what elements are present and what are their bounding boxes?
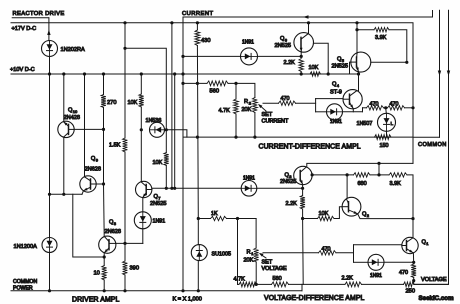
wire set-current bracket bbox=[315, 99, 317, 112]
wiper arrow R1 bbox=[261, 254, 267, 258]
wire 680 3.9K line bbox=[312, 174, 353, 176]
svg-text:10: 10 bbox=[73, 109, 78, 114]
wire Q7 collector line to Q3 base bbox=[152, 187, 241, 189]
svg-text:2N525: 2N525 bbox=[150, 201, 166, 207]
svg-text:2.2K: 2.2K bbox=[284, 60, 296, 66]
wire 2.2K to emitter line bbox=[302, 209, 304, 219]
transistor Q1 bbox=[402, 237, 418, 253]
wire Q10 base line bbox=[74, 128, 103, 130]
svg-text:CURRENT: CURRENT bbox=[182, 11, 214, 17]
resistor 680 bbox=[354, 173, 371, 177]
wire Q3 emitter node to 10K bbox=[303, 218, 318, 220]
wire 10K to Q2 base bbox=[334, 207, 342, 219]
svg-text:560: 560 bbox=[273, 276, 282, 282]
svg-text:470: 470 bbox=[399, 270, 408, 276]
svg-text:150: 150 bbox=[380, 143, 389, 149]
svg-text:+17V D-C: +17V D-C bbox=[12, 26, 37, 32]
svg-text:470: 470 bbox=[322, 247, 331, 253]
svg-text:2N525: 2N525 bbox=[280, 179, 296, 185]
diode 1N507 bbox=[378, 113, 396, 131]
svg-text:1N91: 1N91 bbox=[153, 219, 166, 225]
wire up to driver diode bbox=[142, 229, 144, 244]
wire vertical from +17V rail bbox=[171, 23, 173, 189]
svg-text:REACTOR DRIVE: REACTOR DRIVE bbox=[13, 11, 65, 17]
wire 430 branch from +17V rail bbox=[196, 23, 198, 30]
wire R2 bottom to common line bbox=[254, 113, 256, 138]
wire rail step up bbox=[301, 284, 303, 290]
transistor Q9 bbox=[80, 176, 96, 192]
svg-text:2N428: 2N428 bbox=[64, 115, 80, 121]
svg-text:SU1005: SU1005 bbox=[212, 251, 231, 257]
svg-text:250: 250 bbox=[406, 288, 416, 294]
wire R1 bottom bbox=[255, 262, 257, 284]
wire 1N91 to Q4 emitter bbox=[343, 111, 363, 113]
svg-text:430: 430 bbox=[201, 38, 211, 44]
wire Q2 collector up to 680 node bbox=[346, 175, 348, 198]
wire Q8 base bracket bbox=[73, 194, 104, 257]
svg-text:1N91: 1N91 bbox=[330, 119, 342, 125]
svg-text:1N536: 1N536 bbox=[146, 118, 162, 124]
node Q5 emitter junction bbox=[357, 72, 360, 75]
svg-text:VOLTAGE: VOLTAGE bbox=[262, 266, 287, 272]
transistor Q2 bbox=[342, 197, 361, 216]
wire 1N536 right node bbox=[165, 128, 168, 131]
wire 10 ohm to bottom rail bbox=[103, 280, 105, 291]
diode 1N202RA bbox=[42, 41, 58, 57]
transistor Q4 bbox=[343, 90, 362, 109]
wire 560 line from sense vertical bbox=[183, 82, 207, 84]
resistor 2.2K lower bbox=[345, 282, 362, 287]
resistor 10 bbox=[102, 266, 107, 281]
wire 1N536 node down through 10K lower bbox=[165, 130, 167, 153]
arrow up on 1N202RA lead bbox=[47, 30, 50, 36]
wire Q5 emitter right bbox=[371, 61, 407, 63]
wire 1N536 left branch down to Q7 bbox=[140, 130, 142, 182]
svg-text:3.9K: 3.9K bbox=[375, 35, 387, 41]
wire 1N91 to Q3 node bbox=[257, 187, 303, 189]
resistor 390 bbox=[123, 261, 128, 275]
transistor Q7 bbox=[136, 181, 152, 197]
wire reactor drive stub bbox=[12, 17, 49, 19]
wire node up to Q6 bbox=[300, 52, 302, 57]
wire common jog to bus bbox=[413, 136, 440, 138]
svg-text:COMMON: COMMON bbox=[13, 279, 37, 285]
wire R2 wiper to 470 bbox=[263, 102, 279, 104]
wire SU1005 to bottom rail bbox=[197, 261, 199, 291]
resistor 4.7K upper branch bbox=[235, 83, 237, 99]
resistor 2.2K mid bbox=[302, 188, 304, 195]
wire 560 to R2 bbox=[228, 83, 255, 97]
diode 1N91 bottom bbox=[368, 254, 384, 270]
wire 10K upper-left branch from +10V rail bbox=[140, 74, 142, 94]
wire 680/3.9K line riser bbox=[378, 163, 380, 175]
resistor 470 second bbox=[388, 106, 405, 110]
wire 1N507 riser bbox=[385, 108, 388, 114]
wire reactor output left bbox=[439, 10, 441, 137]
resistor 10K upper-left bbox=[139, 94, 144, 107]
svg-text:POWER: POWER bbox=[13, 286, 33, 292]
resistor 10K top bbox=[310, 72, 321, 76]
wire Q2 emitter line bbox=[358, 214, 413, 219]
wire node up to Q3 bbox=[302, 185, 304, 189]
resistor 430 bbox=[195, 30, 200, 46]
svg-text:680: 680 bbox=[358, 181, 367, 187]
arrow on right output wire bbox=[447, 71, 450, 77]
wire Q3 emitter branch down bbox=[302, 219, 305, 285]
wire 10K to 1N536 node bbox=[140, 107, 142, 130]
svg-text:3.9K: 3.9K bbox=[390, 181, 402, 187]
svg-text:1N91: 1N91 bbox=[370, 273, 382, 279]
svg-text:10K: 10K bbox=[128, 100, 138, 106]
svg-text:CURRENT: CURRENT bbox=[262, 119, 290, 125]
wire Q5 emitter to Q4 collector bbox=[358, 72, 360, 91]
wire bottom mid line bbox=[238, 283, 240, 285]
diode 1N536 bbox=[150, 122, 165, 137]
wire 3.9K top line bbox=[357, 29, 374, 31]
wire 270 line: +10V rail down bbox=[103, 74, 105, 95]
diode SU1005 bbox=[191, 245, 207, 261]
wire Q9 collector to +10V rail bbox=[84, 74, 86, 177]
svg-text:ST-9: ST-9 bbox=[330, 90, 342, 96]
svg-text:470: 470 bbox=[281, 96, 290, 102]
wire 10K to Q7 collector line bbox=[165, 166, 167, 189]
svg-text:470: 470 bbox=[390, 101, 399, 107]
resistor 3.9K top bbox=[374, 28, 389, 32]
wire R1 branch verticals bbox=[237, 219, 239, 285]
transistor Q8 bbox=[99, 236, 116, 253]
diode 1N1200A bbox=[42, 238, 57, 253]
svg-text:1.5K: 1.5K bbox=[109, 143, 121, 149]
transistor Q3 bbox=[294, 166, 312, 184]
resistor 10K lower bbox=[318, 216, 335, 220]
wire Q3 collector to bus bbox=[307, 163, 413, 166]
wire Q6 collector to +17V rail bbox=[308, 23, 310, 34]
svg-text:10K: 10K bbox=[319, 211, 329, 217]
resistor 10K mid-left bbox=[164, 153, 169, 166]
svg-text:560: 560 bbox=[210, 89, 220, 95]
svg-text:K = X 1,000: K = X 1,000 bbox=[173, 297, 202, 303]
svg-text:1N202RA: 1N202RA bbox=[61, 47, 86, 53]
wire vertical from +10V line bbox=[174, 74, 176, 188]
wire jog from 1.5K node to 10K branch bbox=[125, 48, 166, 130]
wire 1N1200A to bottom rail bbox=[49, 253, 51, 291]
svg-text:COMMON: COMMON bbox=[418, 142, 447, 148]
transistor Q6 bbox=[294, 33, 314, 53]
wire Q10 collector to +10V rail bbox=[63, 74, 65, 122]
svg-text:1N1200A: 1N1200A bbox=[14, 244, 38, 250]
wire 1K line bbox=[198, 218, 210, 220]
wire current-sense vertical bbox=[182, 17, 184, 291]
resistor 250 bbox=[404, 282, 415, 287]
resistor 1K bbox=[211, 216, 227, 220]
wire 1N507 down to 150 line bbox=[386, 131, 388, 137]
wire Q8 collector right bbox=[116, 242, 143, 244]
wire +10V rail long line bbox=[11, 73, 359, 75]
svg-text:20K: 20K bbox=[244, 258, 254, 264]
wire 1.5K down to Q8 collector node bbox=[124, 152, 126, 261]
svg-text:10: 10 bbox=[94, 271, 100, 277]
wire 1.5K branch from +17V rail bbox=[124, 23, 126, 138]
potentiometer R1 20K bbox=[254, 248, 259, 262]
svg-text:DRIVER AMPL: DRIVER AMPL bbox=[72, 297, 120, 304]
wiper arrow R2 bbox=[260, 105, 267, 111]
svg-text:2N525: 2N525 bbox=[332, 64, 348, 70]
wire Q5 base riser bbox=[350, 62, 351, 74]
svg-text:4.7K: 4.7K bbox=[219, 108, 231, 114]
wire 1N536 jog down to common line bbox=[166, 130, 187, 137]
wire 470 to Q1 bracket bbox=[336, 252, 354, 254]
resistor 560 upper bbox=[207, 81, 228, 86]
svg-text:390: 390 bbox=[130, 266, 140, 272]
svg-text:2.2K: 2.2K bbox=[286, 201, 298, 207]
wire Q9 base line to node bbox=[96, 183, 103, 185]
svg-text:VOLTAGE-DIFFERENCE AMPL: VOLTAGE-DIFFERENCE AMPL bbox=[264, 295, 365, 302]
diode 1N91 driver bbox=[134, 212, 151, 229]
svg-text:CURRENT-DIFFERENCE AMPL: CURRENT-DIFFERENCE AMPL bbox=[259, 144, 361, 151]
svg-text:10K: 10K bbox=[153, 160, 163, 166]
wire 470 to voltage node bbox=[413, 278, 415, 285]
resistor 470 set-voltage bbox=[319, 251, 337, 255]
wire 270 to Q10 node and down to Q8 bbox=[103, 108, 105, 185]
wire reactor output right bbox=[414, 10, 449, 284]
svg-text:+10V D-C: +10V D-C bbox=[10, 67, 35, 73]
svg-text:270: 270 bbox=[107, 100, 117, 106]
svg-text:4.7K: 4.7K bbox=[234, 277, 246, 283]
svg-text:2N628: 2N628 bbox=[105, 229, 121, 235]
wire 1N91 to Q6 emitter node bbox=[258, 55, 302, 57]
transistor Q10 bbox=[58, 121, 74, 137]
svg-text:10K: 10K bbox=[309, 65, 319, 71]
diode 1N91 at Q4 bbox=[327, 104, 343, 120]
wire Q8 emitter down bbox=[103, 253, 105, 266]
svg-text:20K: 20K bbox=[242, 107, 252, 113]
wire Q5 collector to +17V rail bbox=[356, 23, 358, 53]
resistor 3.9K mid bbox=[389, 173, 407, 177]
wire 1N91 to Q1 emitter node bbox=[384, 261, 414, 263]
resistor 560 lower bbox=[257, 283, 272, 285]
wire 3.9K to Q5 emitter line bbox=[389, 30, 407, 63]
wire Q10 emitter down bbox=[63, 137, 65, 194]
svg-text:SET: SET bbox=[262, 112, 273, 118]
svg-text:1N507: 1N507 bbox=[357, 121, 373, 127]
svg-text:SeekIC.com: SeekIC.com bbox=[419, 295, 455, 302]
wire Q6 base line bbox=[183, 55, 241, 57]
wire 1N91 to Q7 emitter bbox=[142, 198, 144, 212]
wire 3.9K to right vertical bbox=[407, 175, 413, 219]
resistor 470 output bbox=[411, 264, 416, 278]
wire 470-470 line bbox=[363, 107, 367, 109]
wire current top line bbox=[183, 11, 433, 18]
wire Q6 base riser bbox=[313, 43, 328, 74]
resistor 470 first bbox=[367, 106, 384, 110]
transistor Q5 bbox=[351, 52, 371, 72]
resistor 1.5K bbox=[123, 138, 128, 152]
wire 430 down to SU1005 bbox=[196, 46, 199, 219]
arrow on left output wire bbox=[438, 71, 441, 77]
wire common horizontal mid line bbox=[183, 136, 413, 138]
wire voltage node to right rail bbox=[414, 283, 449, 285]
current direction arrow on top line bbox=[303, 15, 309, 18]
svg-text:R: R bbox=[244, 99, 248, 105]
svg-text:VOLTAGE: VOLTAGE bbox=[421, 277, 447, 283]
svg-text:1N91: 1N91 bbox=[243, 176, 255, 182]
wire Q1 emitter down bbox=[412, 253, 414, 264]
resistor 270 bbox=[101, 95, 106, 108]
svg-text:SET: SET bbox=[262, 260, 273, 266]
svg-text:2.2K: 2.2K bbox=[342, 276, 354, 282]
wire 390 to bottom rail bbox=[124, 275, 126, 291]
wire 470 to Q4 bracket bbox=[296, 102, 316, 104]
svg-text:1N91: 1N91 bbox=[242, 40, 254, 46]
wire bottom rail left bbox=[11, 290, 302, 292]
svg-text:R: R bbox=[247, 250, 251, 256]
wire Q1 base bracket bbox=[353, 245, 355, 262]
svg-text:L: L bbox=[391, 121, 394, 127]
potentiometer R2 20K bbox=[253, 98, 258, 113]
svg-text:2N525: 2N525 bbox=[275, 43, 291, 49]
svg-text:1K: 1K bbox=[211, 211, 218, 217]
resistor 150 inline bbox=[375, 135, 392, 140]
diode 1N91 top bbox=[241, 48, 258, 65]
resistor 4.7K lower bbox=[239, 282, 257, 287]
diode 1N91 mid bbox=[241, 181, 257, 197]
svg-text:2N628: 2N628 bbox=[85, 167, 101, 173]
wire +17V rail bbox=[11, 23, 413, 164]
svg-text:470: 470 bbox=[370, 101, 379, 107]
wire top line to 1N202RA bbox=[48, 18, 50, 41]
resistor 2.2K top bbox=[299, 59, 303, 72]
wire driver emitter bus bbox=[50, 193, 83, 195]
resistor 470 set-current bbox=[279, 101, 296, 105]
wire 1N202RA down to bottom rail bbox=[49, 57, 51, 238]
wire bus down to Q1 bbox=[412, 219, 414, 238]
wire R1 wiper line bbox=[263, 252, 319, 254]
